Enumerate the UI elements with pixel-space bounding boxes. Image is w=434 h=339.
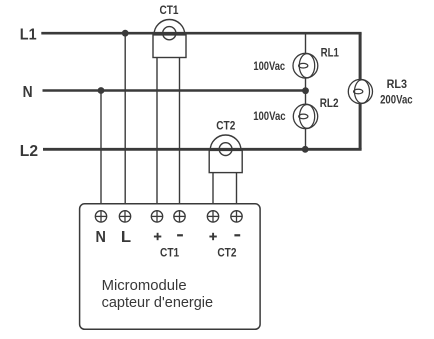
- wire RL1 to RL2 through node N: [305, 78, 307, 104]
- svg-text:CT1: CT1: [160, 3, 179, 17]
- transformer CT2 window: [219, 143, 232, 156]
- pin label CT2 -: [234, 234, 240, 236]
- label CT1: [160, 3, 179, 17]
- svg-text:100Vac: 100Vac: [253, 61, 285, 73]
- pin label L: [121, 229, 131, 246]
- pin label N: [96, 229, 106, 246]
- label RL2: [320, 96, 339, 110]
- terminal CT2 -: [231, 211, 242, 222]
- svg-text:CT2: CT2: [217, 245, 236, 259]
- label N: [23, 84, 33, 101]
- svg-text:CT2: CT2: [216, 119, 235, 133]
- pin group label CT2: [217, 245, 236, 259]
- svg-text:L: L: [121, 229, 131, 246]
- wire L drop from L1 to terminal L: [124, 33, 126, 204]
- lamp RL1: [293, 53, 318, 78]
- wire RL1 top stub from L1: [305, 33, 307, 53]
- wire L2 line: [43, 148, 362, 151]
- lamp RL2: [293, 104, 317, 128]
- svg-text:N: N: [96, 229, 106, 246]
- terminal CT1 -: [174, 211, 185, 222]
- wire CT1 lead -: [179, 57, 181, 204]
- svg-text:100Vac: 100Vac: [253, 111, 286, 123]
- wire right vertical L1 to RL3: [359, 33, 362, 79]
- wire CT1 lead +: [156, 57, 158, 204]
- pin label CT1 +: [154, 233, 161, 240]
- pin label CT2 +: [209, 233, 216, 240]
- svg-text:200Vac: 200Vac: [380, 95, 413, 107]
- transformer CT1 body: [153, 20, 186, 58]
- value 200Vac RL3: [380, 95, 413, 107]
- terminal N: [95, 211, 106, 222]
- transformer CT1 window: [163, 27, 176, 40]
- transformer CT2 body: [209, 135, 242, 173]
- title line 2 capteur d'energie: [102, 294, 214, 311]
- junction N/N: [98, 87, 105, 94]
- title line 1 Micromodule: [102, 277, 187, 294]
- junction L2/RL2: [302, 146, 309, 153]
- svg-text:RL1: RL1: [321, 46, 339, 60]
- label L2: [20, 143, 38, 160]
- lamp RL3: [348, 79, 372, 103]
- svg-text:RL3: RL3: [387, 77, 407, 91]
- label L1: [20, 26, 37, 43]
- terminal CT2 +: [207, 211, 218, 222]
- label RL1: [321, 46, 339, 60]
- pin group label CT1: [160, 245, 179, 259]
- wire RL3 to L2: [359, 104, 362, 150]
- pin label CT1 -: [177, 234, 183, 236]
- svg-text:N: N: [23, 84, 33, 101]
- svg-text:RL2: RL2: [320, 96, 339, 110]
- junction L1/L: [122, 30, 129, 37]
- value 100Vac RL1: [253, 61, 285, 73]
- svg-text:capteur d'energie: capteur d'energie: [102, 294, 214, 311]
- terminal L: [119, 211, 130, 222]
- junction N/RL1-RL2: [302, 87, 309, 94]
- wire N line: [43, 89, 306, 92]
- svg-text:Micromodule: Micromodule: [102, 277, 187, 294]
- wire CT2 lead -: [236, 172, 238, 204]
- wire L1 line: [41, 32, 361, 35]
- wire CT2 lead +: [212, 172, 214, 204]
- terminal CT1 +: [151, 211, 162, 222]
- svg-text:L2: L2: [20, 143, 38, 160]
- svg-text:L1: L1: [20, 26, 37, 43]
- label CT2: [216, 119, 235, 133]
- wire N drop to terminal N: [100, 91, 102, 205]
- label RL3: [387, 77, 407, 91]
- value 100Vac RL2: [253, 111, 286, 123]
- micromodule box U1: [80, 204, 261, 329]
- svg-text:CT1: CT1: [160, 245, 179, 259]
- wire RL2 bottom stub to L2: [305, 129, 307, 150]
